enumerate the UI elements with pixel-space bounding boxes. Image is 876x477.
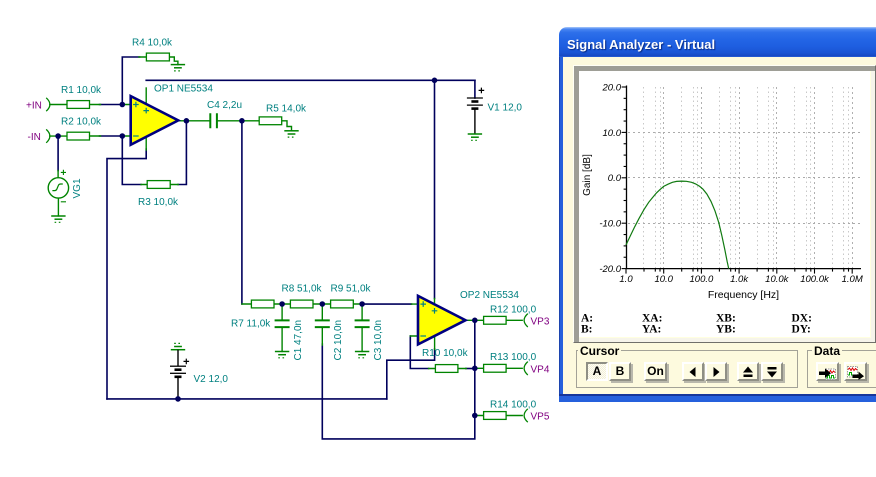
svg-text:+IN: +IN [26, 100, 42, 111]
resistor R12 [475, 305, 537, 325]
svg-text:VP4: VP4 [531, 365, 550, 376]
capacitor C4 [186, 100, 242, 128]
wire minus input node down to R3 [122, 136, 141, 185]
button left arrow [682, 362, 704, 381]
svg-text:10.0: 10.0 [603, 128, 622, 139]
button down-max arrow [761, 362, 783, 381]
svg-text:R8 51,0k: R8 51,0k [282, 283, 323, 294]
node +IN terminal [46, 98, 50, 111]
junction -IN / VG1 [55, 133, 61, 139]
Signal Analyzer - Virtual window [559, 26, 876, 402]
svg-text:-IN: -IN [28, 132, 41, 143]
svg-text:VP5: VP5 [531, 412, 550, 423]
svg-text:R1 10,0k: R1 10,0k [61, 85, 102, 96]
voltage generator VG1 [48, 170, 83, 216]
resistor R8 [282, 283, 323, 308]
y axis labels [599, 82, 621, 275]
capacitor C1 [275, 304, 304, 361]
svg-text:DY:: DY: [792, 324, 811, 336]
ground at VG1 [51, 216, 65, 222]
svg-text:V1 12,0: V1 12,0 [488, 103, 523, 114]
ground at V1 [468, 134, 482, 140]
svg-text:R10 10,0k: R10 10,0k [422, 348, 469, 359]
svg-text:OP1 NE5534: OP1 NE5534 [154, 84, 213, 95]
node VP3 terminal [524, 314, 528, 327]
svg-text:R2 10,0k: R2 10,0k [61, 117, 102, 128]
svg-text:100.0: 100.0 [690, 274, 714, 285]
wire C4 output node down to R7 [241, 121, 243, 304]
wire OP1 negative supply down to V- rail [107, 149, 146, 399]
resistor R3 [138, 181, 179, 208]
battery V1 [467, 88, 523, 134]
svg-text:R4 10,0k: R4 10,0k [132, 38, 173, 49]
plot axes [627, 86, 862, 269]
button data export [844, 362, 867, 381]
svg-text:VP3: VP3 [531, 317, 550, 328]
node -IN terminal [46, 129, 50, 142]
svg-text:R14 100,0: R14 100,0 [490, 400, 537, 411]
capacitor C2 [315, 304, 344, 361]
cursor readout labels A: B: XA: YA: XB: YB: DX: DY: [581, 313, 812, 336]
display bezel [573, 65, 876, 343]
svg-text:10.0k: 10.0k [765, 274, 789, 285]
ground at R4 [171, 65, 185, 71]
wire V+ rail to V1 battery [474, 80, 476, 98]
wire V+ rail down to OP2 supply pin [434, 80, 436, 298]
window left border [559, 57, 564, 395]
svg-text:VG1: VG1 [72, 178, 83, 198]
x axis labels [619, 274, 862, 285]
grid horizontal dashed lines [628, 133, 860, 224]
capacitor C3 [355, 304, 384, 361]
svg-text:R7 11,0k: R7 11,0k [231, 319, 271, 330]
wire R2 to OP1 minus input [100, 135, 123, 137]
svg-text:1.0k: 1.0k [730, 274, 749, 285]
junction OP1 minus input [120, 133, 126, 139]
junction R9 / C3 [359, 301, 365, 307]
svg-text:R9 51,0k: R9 51,0k [331, 283, 372, 294]
svg-text:100.0k: 100.0k [800, 274, 830, 285]
ground at R5 [284, 131, 298, 137]
svg-text:Frequency [Hz]: Frequency [Hz] [708, 289, 779, 301]
wire plus input node up to R4 [122, 57, 139, 105]
wire R9 junction to OP2 plus input [362, 303, 411, 305]
title bar [559, 27, 876, 57]
wire OP2 minus input down to R10 [410, 336, 428, 369]
svg-text:-10.0: -10.0 [599, 219, 621, 230]
wire R10 right to output column [466, 368, 475, 370]
svg-text:0.0: 0.0 [608, 173, 622, 184]
svg-text:20.0: 20.0 [602, 82, 622, 93]
junction OP1 output [184, 118, 190, 124]
svg-text:C1 47,0n: C1 47,0n [293, 320, 304, 361]
button A (pressed) [586, 362, 608, 381]
junction V+ rail / OP2 supply [432, 78, 438, 84]
wire +IN node to OP1 plus input [100, 104, 123, 106]
ground at C3 [355, 352, 369, 358]
junction OP2 output [472, 318, 478, 324]
button right arrow [705, 362, 727, 381]
node VP4 terminal [524, 362, 528, 375]
junction R8 / R9 / C2 [320, 301, 326, 307]
gain curve [626, 181, 729, 269]
window bottom border [559, 394, 876, 402]
junction R10 / R13 [472, 366, 478, 372]
Cursor group box [576, 350, 798, 388]
svg-text:V2 12,0: V2 12,0 [194, 374, 229, 385]
button On [644, 362, 667, 381]
wire OP2 output column down and left to C2 [322, 320, 475, 439]
resistor R2 [50, 117, 102, 141]
svg-text:C3 10,0n: C3 10,0n [373, 320, 384, 361]
resistor R13 [475, 352, 537, 372]
resistor R7 [231, 300, 282, 329]
svg-text:R12 100,0: R12 100,0 [490, 305, 537, 316]
client area [563, 57, 876, 394]
button B [609, 362, 631, 381]
wire -IN node down to VG1 [57, 136, 59, 170]
svg-text:Gain [dB]: Gain [dB] [582, 154, 593, 196]
svg-text:C4 2,2u: C4 2,2u [207, 100, 242, 111]
op-amp OP1 NE5534 [122, 84, 213, 151]
resistor R5 [242, 104, 307, 131]
svg-text:YB:: YB: [716, 324, 736, 336]
svg-text:R13 100,0: R13 100,0 [490, 352, 537, 363]
button data import [816, 362, 839, 381]
svg-text:R5 14,0k: R5 14,0k [266, 104, 307, 115]
op-amp OP2 NE5534 [410, 290, 519, 350]
svg-text:1.0: 1.0 [619, 274, 633, 285]
Data group box [807, 350, 876, 388]
junction V2 on V- rail [175, 396, 181, 402]
svg-text:C2 10,0n: C2 10,0n [333, 320, 344, 361]
junction R14 [472, 413, 478, 419]
plot svg [579, 71, 869, 338]
grid minor vertical dashed lines [644, 87, 849, 269]
grid major vertical dashed lines [664, 87, 853, 269]
junction C4 / R5 / R7 [239, 118, 245, 124]
resistor R9 [322, 283, 371, 308]
svg-text:-20.0: -20.0 [599, 264, 621, 275]
battery V2 [170, 350, 228, 399]
resistor R1 [50, 85, 102, 108]
junction R7 / R8 / C1 [279, 301, 285, 307]
ground at C1 [275, 352, 289, 358]
svg-text:YA:: YA: [642, 324, 661, 336]
wire V+ rail [146, 79, 475, 81]
resistor R10 [422, 348, 469, 372]
junction OP1 plus input [120, 102, 126, 108]
svg-text:OP2 NE5534: OP2 NE5534 [460, 290, 519, 301]
wire V- rail up to OP2 negative supply [387, 349, 435, 399]
svg-text:1.0M: 1.0M [842, 274, 863, 285]
ground at V2 (inverted) [171, 343, 185, 349]
button up-max arrow [737, 362, 759, 381]
resistor R4 [132, 38, 178, 65]
node VP5 terminal [524, 409, 528, 422]
wire R3 right up to OP1 output node [178, 121, 186, 185]
svg-text:R3 10,0k: R3 10,0k [138, 197, 179, 208]
resistor R14 [475, 400, 537, 420]
svg-text:10.0: 10.0 [654, 274, 673, 285]
wire V- rail [107, 398, 387, 400]
svg-text:B:: B: [581, 324, 593, 336]
